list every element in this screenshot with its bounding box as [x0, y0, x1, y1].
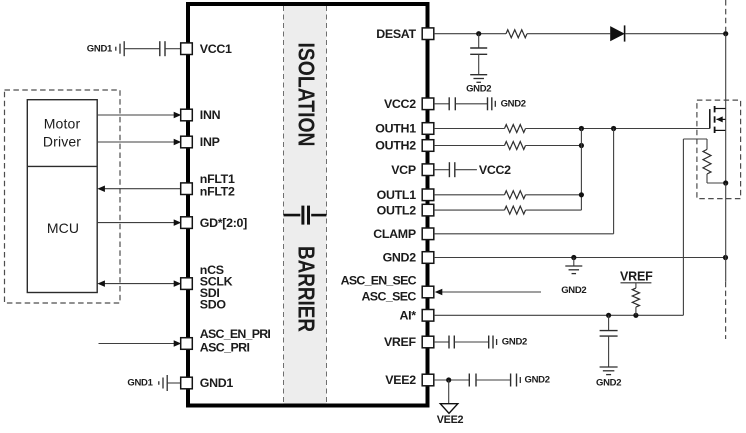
wire ground to GND1 pin — [167, 382, 181, 384]
svg-text:VREF: VREF — [620, 269, 653, 283]
capacitor C4 (VCC2 decoupling) — [488, 97, 492, 110]
svg-text:VREF: VREF — [384, 335, 417, 349]
INN pin label — [200, 108, 221, 122]
wire nFLT pins to MCU — [97, 185, 180, 192]
capacitor C1 (VCC1 decoupling) — [160, 41, 165, 56]
svg-text:VCP: VCP — [391, 163, 416, 177]
capacitor C8 (VREF decoupling) — [489, 336, 493, 349]
pin GND1 — [181, 377, 193, 389]
VREF pin label — [384, 335, 417, 349]
pin VCC2 — [422, 98, 434, 110]
pin ASC_EN_PRI/ASC_PRI — [181, 338, 193, 350]
svg-text:MCU: MCU — [47, 220, 79, 236]
wire source to GND2 row — [725, 183, 727, 282]
resistor R4 (gate off, low) — [505, 191, 526, 199]
svg-text:ISOLATION: ISOLATION — [294, 43, 320, 147]
svg-text:GND1: GND1 — [127, 378, 153, 389]
capacitor C5 (VCP bootstrap) — [449, 162, 454, 177]
svg-text:GND2: GND2 — [501, 99, 526, 110]
resistor R3 (gate on, high 2) — [505, 142, 526, 150]
dashed continuation wire down to phase node — [725, 282, 727, 339]
OUTH1 pin label — [375, 122, 416, 136]
VCC2 pin label — [384, 97, 416, 111]
wire ground tap — [573, 258, 575, 267]
resistor R1 (DESAT blanking) — [506, 30, 527, 38]
wire DESAT pin to resistor R1 — [434, 33, 506, 35]
GND2 net label (VREF row) — [502, 337, 527, 348]
wire VEE2 pin to capacitor C9 — [434, 379, 470, 381]
wire MCU to GD*[2:0] — [97, 219, 181, 226]
svg-text:GND2: GND2 — [596, 378, 621, 389]
wire GND1 to capacitor C1 — [124, 48, 160, 50]
wire into ASC_SEC pin — [435, 289, 541, 296]
svg-text:VCC1: VCC1 — [200, 42, 232, 56]
wire resistor R5 to tie point — [526, 209, 582, 211]
svg-text:GND1: GND1 — [200, 376, 234, 390]
svg-text:BARRIER: BARRIER — [294, 246, 320, 332]
resistor R5 (gate off, low 2) — [505, 206, 526, 214]
pin OUTL1 — [422, 189, 434, 201]
VCC1 pin label — [200, 42, 232, 56]
ground tick for C4 — [494, 101, 496, 107]
wire resistor R7 bottom lead — [707, 174, 726, 183]
svg-text:AI*: AI* — [399, 309, 416, 323]
pin OUTH2 — [422, 140, 434, 152]
wire AI* riser to clamp resistor — [682, 139, 684, 315]
GND2 net label (AI* filter) — [596, 378, 621, 389]
wire resistor R1 to diode D1 — [527, 33, 610, 35]
ASC_EN_PRI pin label — [200, 327, 271, 341]
ASC_SEC pin label — [361, 290, 416, 304]
VEE2 pin label — [385, 373, 416, 387]
OUTH2 pin label — [375, 139, 416, 153]
pin nCS/SCLK/SDI/SDO — [181, 278, 193, 290]
bidirectional SPI bus wire MCU to nCS/SCLK/SDI/SDO — [97, 280, 181, 287]
wire VCC2 pin to capacitor C3 — [434, 103, 449, 105]
pin CLAMP — [422, 228, 434, 240]
wire resistor R2 to MOSFET gate — [526, 128, 710, 130]
Motor Driver / MCU block — [27, 100, 97, 293]
transistor Q1 (power MOSFET) — [710, 106, 726, 133]
wire CLAMP pin to gate node — [434, 233, 614, 235]
svg-text:GND2: GND2 — [561, 285, 586, 296]
GND2 net label (mid) — [561, 285, 586, 296]
INP pin label — [200, 135, 220, 149]
wire capacitor C3 to capacitor C4 — [455, 103, 487, 105]
svg-text:INP: INP — [200, 135, 220, 149]
isolation barrier capacitor symbol — [284, 206, 327, 225]
wire resistor R3 to tie point — [526, 145, 582, 147]
GND2 net label (VCC2 decoupling) — [501, 99, 526, 110]
wire output tie bus — [580, 129, 582, 211]
dashed enclosure around motor driver and MCU — [5, 90, 121, 303]
isolation barrier band — [284, 6, 327, 404]
capacitor C3 (VCC2 decoupling) — [449, 97, 455, 110]
wire drain bus down to MOSFET — [725, 34, 727, 109]
ground tick for C10 — [519, 377, 521, 383]
resistor R2 (gate on, high) — [505, 125, 526, 133]
OUTL2 pin label — [377, 203, 417, 217]
GND1 net label (top left) — [87, 43, 113, 54]
capacitor C9 (VEE2 decoupling) — [469, 374, 476, 387]
pin VCC1 — [181, 43, 193, 55]
pin DESAT — [422, 28, 434, 40]
pin VREF — [422, 336, 434, 348]
pin OUTL2 — [422, 204, 434, 216]
wire capacitor C1 to VCC1 pin — [165, 48, 181, 50]
ground symbol GND1 (top left) — [116, 41, 124, 56]
VREF rail line — [621, 282, 652, 284]
nCS pin label — [200, 263, 224, 277]
svg-text:GND2: GND2 — [502, 337, 527, 348]
node junction GND2 ground tap — [571, 255, 576, 260]
ground symbol GND2 (AI* filter) — [600, 367, 618, 375]
node junction OUTH1/CLAMP tie — [611, 126, 616, 131]
wire AI* pin to riser — [434, 314, 684, 316]
wire capacitor C2 to ground — [478, 54, 480, 74]
svg-text:OUTH1: OUTH1 — [375, 122, 416, 136]
diode D1 (DESAT sense) — [610, 25, 625, 41]
ASC_EN_SEC pin label — [341, 273, 417, 287]
BARRIER label — [294, 246, 320, 332]
wire capacitor C6 to ground — [608, 336, 610, 367]
wire resistor R4 to tie point — [526, 194, 582, 196]
svg-text:Driver: Driver — [43, 134, 81, 150]
ground symbol GND2 (DESAT filter) — [470, 75, 487, 83]
wire VREF rail to resistor R6 — [635, 283, 637, 288]
dashed enclosure around power MOSFET Q1 — [697, 100, 741, 199]
svg-text:GND1: GND1 — [87, 43, 113, 54]
wire AI* node to capacitor C6 — [608, 315, 610, 330]
VEE2 rail arrow symbol — [440, 404, 458, 414]
svg-text:VCC2: VCC2 — [479, 163, 511, 177]
svg-text:SDO: SDO — [200, 297, 227, 311]
svg-text:Motor: Motor — [44, 116, 81, 132]
svg-text:ASC_EN_PRI: ASC_EN_PRI — [200, 327, 271, 341]
svg-text:GND2: GND2 — [466, 84, 491, 95]
pin VCP — [422, 164, 434, 176]
svg-text:GND2: GND2 — [383, 251, 417, 265]
nFLT2 pin label — [200, 184, 235, 198]
ISOLATION label — [294, 43, 320, 147]
GD*[2:0] pin label — [200, 216, 247, 230]
svg-text:DESAT: DESAT — [376, 27, 416, 41]
wire GND2 pin to source node — [434, 257, 726, 259]
svg-text:OUTL1: OUTL1 — [377, 188, 417, 202]
pin INP — [181, 136, 193, 148]
wire capacitor C7 to capacitor C8 — [454, 341, 488, 343]
svg-text:nFLT2: nFLT2 — [200, 184, 235, 198]
dashed continuation wire up to DC bus — [725, 0, 727, 31]
wire capacitor C9 to capacitor C10 — [476, 379, 511, 381]
OUTL1 pin label — [377, 188, 417, 202]
divider between Motor Driver and MCU — [27, 165, 97, 167]
pin OUTH1 — [422, 123, 434, 135]
resistor R6 (VREF pullup) — [632, 288, 639, 307]
GND1 pin label — [200, 376, 234, 390]
wire CLAMP riser to OUTH1 node — [613, 129, 615, 234]
wire DESAT node to capacitor C2 — [478, 34, 480, 48]
VEE2 net label (arrow) — [437, 414, 464, 426]
wire OUTH2 pin to resistor R3 — [434, 145, 505, 147]
gate driver IC body U1 — [188, 4, 428, 406]
svg-text:VCC2: VCC2 — [384, 97, 416, 111]
capacitor C6 (AI* filter) — [600, 331, 618, 337]
node junction at MOSFET source / GND2 — [723, 255, 728, 260]
pin AI* — [422, 310, 434, 322]
pin GND2 — [422, 252, 434, 264]
svg-text:CLAMP: CLAMP — [373, 227, 416, 241]
node junction on DESAT net — [476, 31, 481, 36]
wire VCP pin to capacitor C5 — [434, 169, 450, 171]
GND2 net label (DESAT filter) — [466, 84, 491, 95]
wire VEE2 tap down — [448, 380, 450, 404]
svg-text:OUTL2: OUTL2 — [377, 203, 417, 217]
node junction VEE2 arrow tap — [446, 377, 451, 382]
svg-text:ASC_PRI: ASC_PRI — [200, 340, 250, 354]
MCU label — [47, 220, 79, 236]
capacitor C10 (VEE2 decoupling) — [511, 374, 517, 387]
SDI pin label — [200, 286, 220, 300]
wire OUTL1 pin to resistor R4 — [434, 194, 505, 196]
node junction OUTL1 tie — [579, 192, 584, 197]
wire VREF pin to capacitor C7 — [434, 341, 449, 343]
AI* pin label — [399, 309, 416, 323]
wire OUTH1 pin to resistor R2 — [434, 128, 505, 130]
svg-text:ASC_EN_SEC: ASC_EN_SEC — [341, 273, 417, 287]
svg-text:INN: INN — [200, 108, 221, 122]
GND2 pin label — [383, 251, 417, 265]
node junction AI*/filter cap — [606, 313, 611, 318]
wire to ASC_EN_PRI/ASC_PRI — [99, 340, 182, 347]
svg-text:OUTH2: OUTH2 — [375, 139, 416, 153]
wire Motor Driver to INP — [97, 139, 181, 146]
node junction OUTH1/OUTH2 tie — [579, 126, 584, 131]
svg-text:VEE2: VEE2 — [385, 373, 416, 387]
ASC_PRI pin label — [200, 340, 250, 354]
pin nFLT1/nFLT2 — [181, 183, 193, 195]
VCC2 net label (VCP row) — [479, 163, 511, 177]
svg-text:GD*[2:0]: GD*[2:0] — [200, 216, 247, 230]
pin INN — [181, 109, 193, 121]
pin GD*[2:0] — [181, 217, 193, 229]
Motor Driver label — [43, 116, 81, 150]
svg-text:ASC_SEC: ASC_SEC — [361, 290, 416, 304]
wire diode D1 to drain node — [625, 33, 725, 35]
pin VEE2 — [422, 374, 434, 386]
capacitor C2 (DESAT filter) — [470, 48, 487, 54]
pin ASC_EN_SEC/ASC_SEC — [422, 286, 434, 298]
node junction R7/source — [723, 180, 728, 185]
GND1 net label (bottom left) — [127, 378, 153, 389]
ground tick for C8 — [496, 339, 498, 345]
svg-text:VEE2: VEE2 — [437, 414, 464, 426]
VREF net label — [620, 269, 653, 283]
VCP pin label — [391, 163, 416, 177]
DESAT pin label — [376, 27, 416, 41]
svg-text:GND2: GND2 — [525, 375, 550, 386]
resistor R7 (gate-source) — [703, 149, 711, 174]
node junction OUTH2 tie — [579, 143, 584, 148]
ground symbol GND1 (bottom left) — [159, 375, 167, 391]
wire MOSFET source down — [725, 109, 727, 184]
CLAMP pin label — [373, 227, 416, 241]
node junction at drain bus — [723, 31, 728, 36]
nFLT1 pin label — [200, 172, 235, 186]
GND2 net label (VEE2 row) — [525, 375, 550, 386]
wire resistor R6 to AI* net — [635, 307, 637, 315]
wire OUTL2 pin to resistor R5 — [434, 209, 505, 211]
wire Motor Driver to INN — [97, 112, 181, 119]
SDO pin label — [200, 297, 227, 311]
capacitor C7 (VREF decoupling) — [449, 336, 454, 349]
ground symbol GND2 (mid) — [565, 266, 582, 274]
node junction AI*/VREF resistor — [633, 313, 638, 318]
wire capacitor C5 to VCC2 net — [455, 169, 477, 171]
SCLK pin label — [200, 275, 233, 289]
wire resistor R7 top lead — [683, 139, 707, 149]
